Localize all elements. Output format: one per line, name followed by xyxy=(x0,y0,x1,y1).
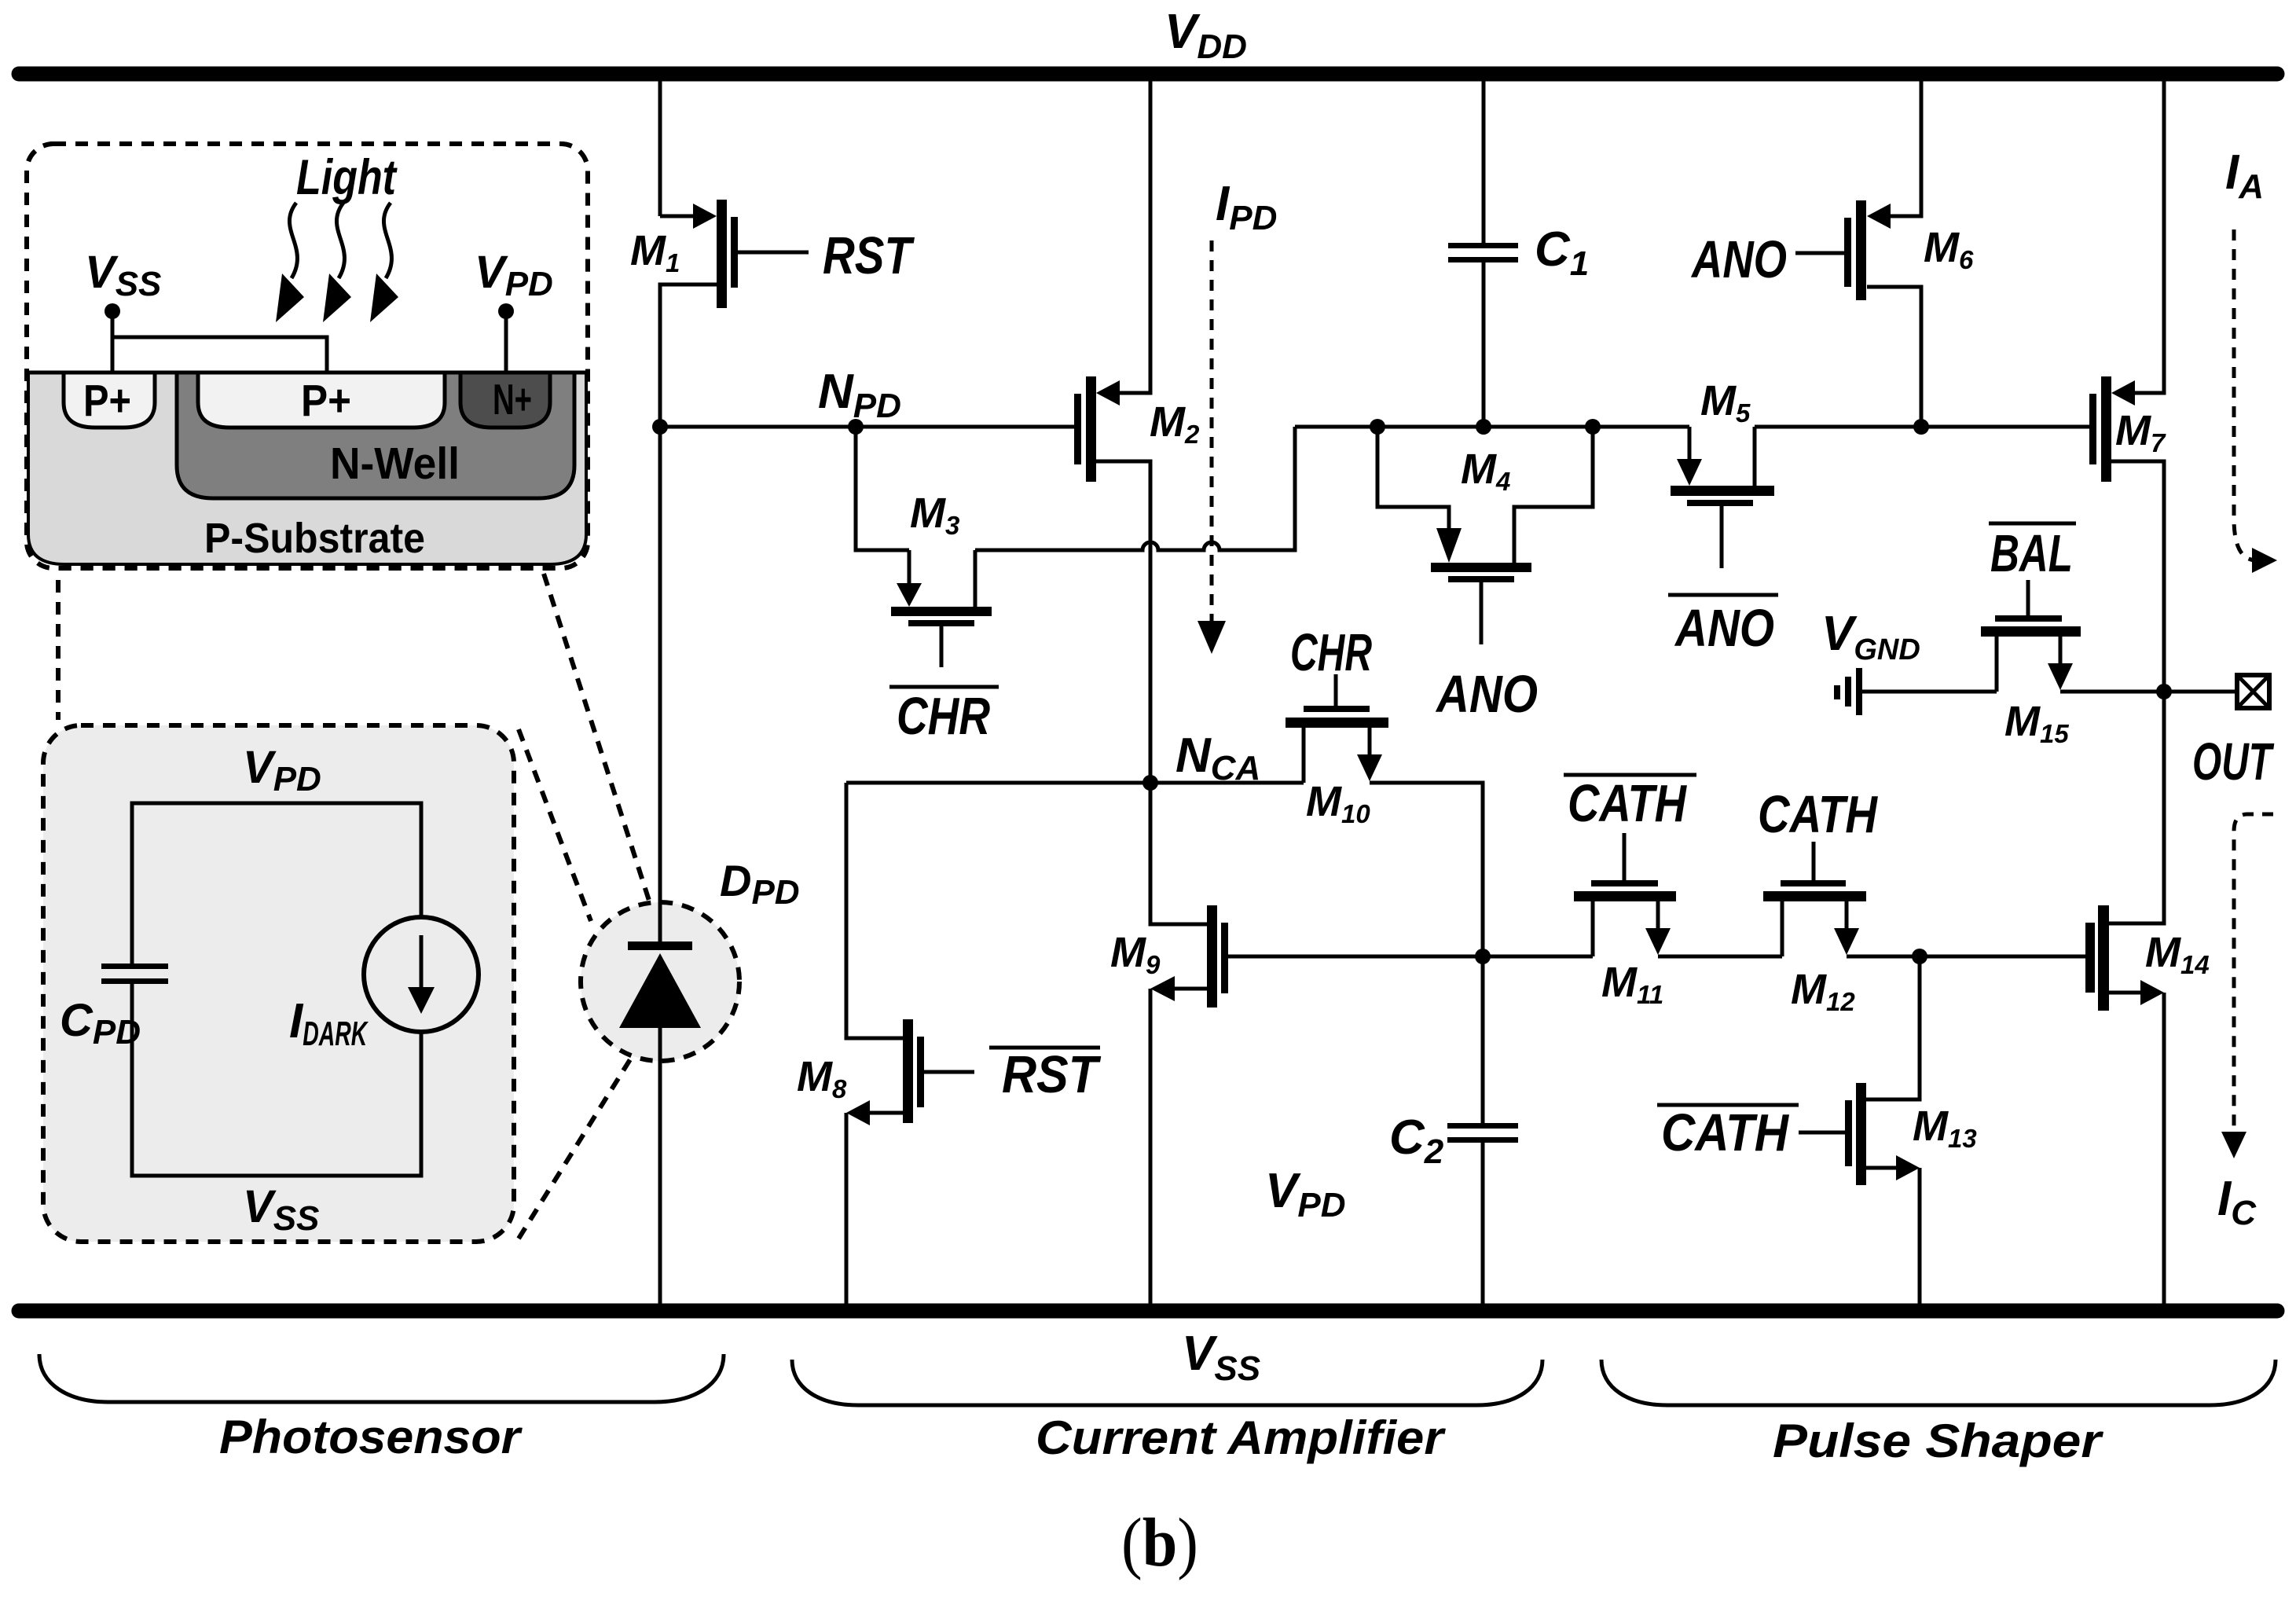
zoom dashed line box2 top-right to diode circle xyxy=(519,729,591,921)
surface line xyxy=(27,371,588,375)
transistor M4 source arrow xyxy=(1436,528,1462,563)
transistor M4 right terminal xyxy=(1514,427,1593,563)
svg-text:P+: P+ xyxy=(301,376,351,426)
transistor M5 right terminal xyxy=(1753,427,1757,486)
svg-text:OUT: OUT xyxy=(2192,732,2275,791)
capacitor C1 top lead xyxy=(1482,81,1486,243)
transistor M8 gate lead xyxy=(924,1070,974,1074)
current source arrow xyxy=(420,935,424,992)
transistor M8 source lead with NMOS arrow xyxy=(870,1111,903,1115)
node NCA wire right xyxy=(1370,783,1483,1123)
Pulse Shaper brace xyxy=(1601,1360,2276,1405)
transistor M13 source lead with NMOS arrow xyxy=(1866,1166,1896,1170)
VPD terminal dot xyxy=(498,303,514,319)
wire M15 to OUT xyxy=(2060,690,2237,694)
transistor M2 source stub from VDD xyxy=(1120,81,1150,393)
transistor M12 gate bar xyxy=(1781,880,1846,886)
equivalent-circuit inset dashed box xyxy=(43,725,514,1242)
light arrow 1 xyxy=(289,203,297,278)
svg-text:ANO: ANO xyxy=(1690,230,1787,289)
transistor M5 gate bar xyxy=(1687,500,1753,506)
transistor M3 left terminal from NPD xyxy=(856,427,909,585)
transistor M9 channel bar xyxy=(1207,905,1217,1008)
transistor M2 channel bar xyxy=(1086,376,1096,482)
transistor M1 channel bar xyxy=(717,200,727,308)
node NCA wire left xyxy=(846,781,1304,785)
transistor M8 drain lead xyxy=(846,783,903,1038)
capacitor C1 plates xyxy=(1448,243,1518,248)
svg-text:P-Substrate: P-Substrate xyxy=(204,515,425,562)
transistor M10 channel bar xyxy=(1286,718,1388,728)
transistor M14 drain lead xyxy=(2109,692,2164,923)
junction dot M9 gate column xyxy=(1475,949,1491,964)
Current Amplifier brace xyxy=(792,1360,1542,1405)
P+ diffusion in N-Well xyxy=(198,373,445,428)
CATH-bar gate label of M11 xyxy=(1564,773,1696,777)
transistor M3 source arrow xyxy=(897,583,922,607)
transistor M5 channel bar xyxy=(1671,486,1774,496)
transistor M3 gate lead xyxy=(940,626,944,667)
zoom dashed line box1 to box2 xyxy=(56,580,61,720)
BAL-bar gate label of M15 xyxy=(1989,522,2076,526)
RST-bar gate label of M8 xyxy=(989,1046,1100,1050)
svg-text:CATH: CATH xyxy=(1758,785,1878,844)
transistor M15 left terminal xyxy=(1995,637,1999,692)
svg-text:ANO: ANO xyxy=(1435,665,1538,724)
transistor M3 right terminal xyxy=(974,550,977,607)
junction dot M13 column xyxy=(1912,949,1927,964)
capacitor C2 bottom lead xyxy=(1481,1143,1485,1304)
transistor M15 right terminal with arrow xyxy=(2059,637,2063,665)
wire node row y543 right segment xyxy=(1755,425,2089,429)
transistor M14 source lead with NMOS arrow xyxy=(2109,991,2140,995)
N+ diffusion xyxy=(460,373,550,428)
transistor M11 left terminal xyxy=(1591,901,1595,956)
wire M11 to M12 xyxy=(1658,955,1782,959)
transistor M14 channel bar xyxy=(2098,905,2109,1011)
wire node row y543 left segment xyxy=(1295,425,1689,429)
transistor M7 channel bar xyxy=(2101,376,2111,482)
transistor M13 drain lead xyxy=(1866,956,1920,1099)
svg-text:Light: Light xyxy=(296,150,398,205)
light arrow 2 xyxy=(336,203,344,278)
transistor M2 drain lead xyxy=(1096,461,1150,783)
svg-text:N+: N+ xyxy=(493,375,532,424)
IPD dashed current arrow xyxy=(1210,240,1214,621)
transistor M10 gate bar xyxy=(1304,706,1370,712)
junction dot OUT column xyxy=(2156,684,2172,699)
IC dashed current arrow xyxy=(2234,814,2273,1132)
svg-text:(b): (b) xyxy=(1121,1505,1198,1581)
svg-text:RST: RST xyxy=(1002,1045,1102,1104)
transistor M4 channel bar xyxy=(1431,563,1531,572)
junction dot M4 left xyxy=(1370,419,1385,435)
svg-text:CATH: CATH xyxy=(1661,1103,1789,1162)
capacitor C1 bottom lead xyxy=(1482,262,1486,427)
node NPD junction dot (M3 branch) xyxy=(848,419,864,435)
transistor M11 gate bar xyxy=(1591,880,1658,886)
VSS rail xyxy=(19,1304,2277,1319)
photodiode DPD cathode bar xyxy=(628,941,692,950)
transistor M3 gate bar xyxy=(908,620,974,626)
transistor M4 left terminal xyxy=(1377,427,1449,530)
transistor M5 gate lead xyxy=(1720,506,1724,568)
photodiode DPD triangle xyxy=(619,953,701,1028)
transistor M6 gate bar xyxy=(1844,218,1851,287)
transistor M7 source stub from VDD xyxy=(2135,81,2164,393)
node NPD wire xyxy=(660,425,1074,429)
transistor M1 top lead with PMOS arrow xyxy=(660,215,695,218)
photodiode dashed circle xyxy=(581,902,739,1061)
junction dot C1 xyxy=(1476,419,1491,435)
Photosensor brace xyxy=(39,1354,724,1402)
transistor M2 source PMOS arrow xyxy=(1096,380,1120,406)
svg-text:ANO: ANO xyxy=(1674,599,1774,658)
transistor M7 gate bar xyxy=(2089,394,2096,464)
CHR-bar gate label of M3 xyxy=(889,685,999,689)
transistor M11 gate lead xyxy=(1623,833,1627,880)
N-Well region xyxy=(177,373,574,498)
ANO-bar gate label of M5 xyxy=(1668,593,1778,597)
transistor M4 gate bar xyxy=(1448,576,1514,582)
svg-text:RST: RST xyxy=(823,226,915,285)
transistor M10 left terminal xyxy=(1302,728,1306,783)
transistor M15 gate lead xyxy=(2026,580,2030,615)
transistor M4 gate lead xyxy=(1480,582,1484,644)
VDD rail xyxy=(19,67,2277,82)
photosensor cross-section inset dashed box xyxy=(27,144,588,568)
capacitor CPD plates xyxy=(101,964,168,969)
zoom dashed line box2 bottom-right to diode circle xyxy=(519,1047,638,1239)
transistor M2 gate bar xyxy=(1074,394,1081,464)
transistor M13 gate lead xyxy=(1799,1131,1845,1135)
wire ground to M15 xyxy=(1859,690,1997,694)
transistor M11 channel bar xyxy=(1574,891,1676,901)
transistor M14 gate bar xyxy=(2085,923,2095,993)
transistor M1 gate bar xyxy=(731,217,738,288)
VSS terminal dot xyxy=(105,303,120,319)
junction dot M6 drain xyxy=(1913,419,1929,435)
transistor M12 right terminal with arrow xyxy=(1845,901,1849,930)
P-Substrate region xyxy=(28,373,586,564)
svg-text:CATH: CATH xyxy=(1568,774,1687,833)
transistor M6 channel bar xyxy=(1856,200,1866,300)
transistor M8 channel bar xyxy=(903,1019,913,1123)
photodiode column wire to diode xyxy=(658,427,662,1304)
VSS contact lead xyxy=(112,314,327,373)
transistor M10 right terminal with arrow xyxy=(1368,728,1372,756)
transistor M3 channel bar xyxy=(891,607,992,616)
OUT pad xyxy=(2237,675,2269,708)
capacitor C2 plates xyxy=(1447,1123,1518,1129)
svg-text:CHR: CHR xyxy=(1290,623,1372,682)
photodiode column wire upper xyxy=(658,81,662,216)
transistor M10 gate lead xyxy=(1334,674,1338,706)
P+ diffusion left xyxy=(64,373,155,428)
transistor M12 left terminal xyxy=(1781,901,1784,956)
transistor M9 gate wire to row xyxy=(1228,955,1593,959)
transistor M6 drain lead xyxy=(1867,287,1921,427)
wire from M3 to node with hops over M2 drain and IPD arrow xyxy=(975,427,1295,550)
light arrow 3 xyxy=(383,203,391,278)
transistor M15 gate bar xyxy=(1995,615,2062,622)
transistor M11 right terminal with arrow xyxy=(1656,901,1660,930)
transistor M12 gate lead xyxy=(1812,842,1816,880)
transistor M6 source stub from VDD xyxy=(1891,81,1921,216)
transistor M7 drain lead xyxy=(2111,461,2164,692)
transistor M8 gate bar xyxy=(917,1037,924,1107)
svg-text:Pulse Shaper: Pulse Shaper xyxy=(1773,1415,2104,1467)
node NCA junction dot xyxy=(1142,775,1158,791)
VPD contact lead xyxy=(504,314,508,373)
transistor M9 gate bar xyxy=(1221,923,1228,993)
svg-text:Photosensor: Photosensor xyxy=(219,1411,523,1463)
photosensor inset dashed border (overlay) xyxy=(27,144,588,568)
transistor M7 source PMOS arrow xyxy=(2111,380,2135,406)
wire loop of equivalent circuit xyxy=(132,803,421,1176)
IA dashed current arrow xyxy=(2234,229,2257,560)
transistor M9 source lead with NMOS arrow xyxy=(1175,987,1207,991)
junction dot M4 right xyxy=(1585,419,1601,435)
transistor M12 channel bar xyxy=(1763,891,1866,901)
transistor M5 left terminal with arrow xyxy=(1688,427,1692,461)
svg-text:Current Amplifier: Current Amplifier xyxy=(1036,1411,1447,1464)
transistor M9 drain lead xyxy=(1150,783,1207,924)
svg-text:CHR: CHR xyxy=(897,687,990,746)
current source IDARK circle xyxy=(364,917,479,1032)
transistor M13 gate bar xyxy=(1845,1100,1852,1166)
transistor M6 source PMOS arrow xyxy=(1867,204,1891,229)
CATH-bar gate label of M13 xyxy=(1657,1103,1799,1107)
transistor M15 channel bar xyxy=(1981,626,2081,637)
svg-text:BAL: BAL xyxy=(1990,524,2073,583)
transistor M13 channel bar xyxy=(1856,1083,1866,1185)
zoom dashed line box1 to diode circle xyxy=(544,574,651,905)
svg-text:P+: P+ xyxy=(83,376,131,426)
transistor M1 bottom lead xyxy=(660,284,717,427)
wire M12 to M14 gate xyxy=(1847,955,2085,959)
node NPD junction dot (photodiode column) xyxy=(652,419,668,435)
transistor M6 gate lead xyxy=(1795,251,1844,255)
transistor M1 gate lead xyxy=(738,251,809,255)
svg-text:N-Well: N-Well xyxy=(330,439,460,489)
signal ground symbol xyxy=(1837,668,1859,715)
